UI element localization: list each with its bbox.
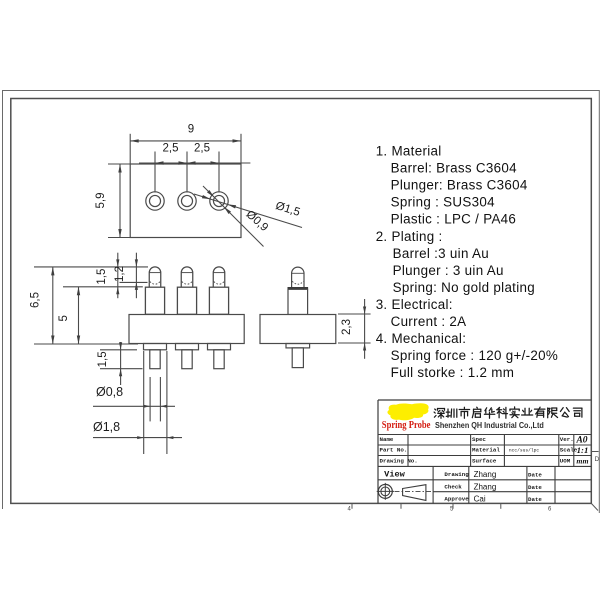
dimension 1,2 (full stroke) <box>135 253 137 299</box>
front view mounting bar <box>129 315 244 344</box>
extension line for 1,2 stroke <box>120 281 148 283</box>
svg-text:3. Electrical:: 3. Electrical: <box>376 297 453 312</box>
svg-text:2,3: 2,3 <box>341 319 353 335</box>
svg-text:1,2: 1,2 <box>114 266 126 282</box>
svg-text:1,5: 1,5 <box>96 269 108 285</box>
side view collar below bar <box>286 344 310 348</box>
dimension 1,5 (plunger travel) <box>117 253 119 299</box>
extension line tail end <box>100 368 143 370</box>
extension line at plunger tip level <box>34 266 148 268</box>
svg-text:Material: Material <box>472 447 500 454</box>
dia 0,8 extension lines (tail diameter) <box>149 377 151 421</box>
svg-text:Approve: Approve <box>444 496 469 503</box>
projection symbol centerline <box>395 490 433 492</box>
side view plunger with dome tip <box>292 267 304 288</box>
svg-text:Spring force : 120 g+/-20%: Spring force : 120 g+/-20% <box>391 348 558 363</box>
svg-text:2. Plating :: 2. Plating : <box>376 229 443 244</box>
svg-text:D: D <box>595 456 600 463</box>
svg-text:Zhang: Zhang <box>474 470 497 479</box>
svg-text:Zhang: Zhang <box>474 482 497 491</box>
extension line at bar bottom <box>34 343 138 345</box>
svg-text:Cai: Cai <box>474 494 486 503</box>
svg-text:2,5: 2,5 <box>163 143 179 155</box>
svg-text:Date: Date <box>528 472 542 479</box>
title block horizontal rules <box>378 434 591 436</box>
svg-text:Scale: Scale <box>560 447 578 454</box>
svg-text:Ø0,8: Ø0,8 <box>96 385 123 399</box>
top view hole 1 (double circle) <box>146 192 164 210</box>
front view pin 3 solder tail <box>214 350 224 369</box>
side view hidden spring seat (dotted arc) <box>292 281 303 284</box>
svg-text:Spec: Spec <box>472 436 486 443</box>
svg-text:mm: mm <box>576 456 588 465</box>
svg-text:A0: A0 <box>575 435 587 445</box>
extension line at barrel top level <box>63 286 143 288</box>
front view pin 2 solder tail <box>182 350 192 369</box>
title block vertical rules (upper rows) <box>407 435 409 467</box>
svg-text:6,5: 6,5 <box>30 292 42 308</box>
svg-text:5,9: 5,9 <box>95 193 107 209</box>
svg-text:9: 9 <box>188 124 194 136</box>
svg-text:Part No.: Part No. <box>380 447 408 454</box>
side view mounting bar <box>260 315 336 344</box>
svg-text:Plunger : 3 uin Au: Plunger : 3 uin Au <box>393 263 504 278</box>
svg-text:Surface: Surface <box>472 457 497 464</box>
svg-text:Spring : SUS304: Spring : SUS304 <box>391 195 495 210</box>
svg-text:Plastic : LPC / PA46: Plastic : LPC / PA46 <box>391 212 517 227</box>
svg-text:1,5: 1,5 <box>97 351 109 367</box>
pin 3 barrel <box>209 287 228 314</box>
svg-text:Spring: No gold plating: Spring: No gold plating <box>393 280 535 295</box>
svg-text:Shenzhen QH Industrial Co.,Ltd: Shenzhen QH Industrial Co.,Ltd <box>435 420 544 430</box>
company hanzi name (drawn strokes) <box>434 407 582 418</box>
title block outline <box>378 399 591 401</box>
front view pin 3 collar below bar <box>208 344 231 350</box>
pin 3 hidden spring seat (dotted arc) <box>214 281 225 284</box>
extension line collar bottom <box>100 349 137 351</box>
front view pin 2 collar below bar <box>176 344 199 350</box>
svg-text:1:1: 1:1 <box>577 445 589 455</box>
svg-text:Drawing: Drawing <box>444 471 469 478</box>
svg-text:2,5: 2,5 <box>194 143 210 155</box>
svg-text:Plunger: Brass C3604: Plunger: Brass C3604 <box>391 178 528 193</box>
third-angle projection symbol: target circle <box>378 484 392 498</box>
svg-text:View: View <box>384 470 405 480</box>
svg-text:Date: Date <box>528 496 542 503</box>
svg-text:4. Mechanical:: 4. Mechanical: <box>376 331 467 346</box>
drawing sheet outer border <box>3 90 600 92</box>
dimension 2,5 dimension line <box>139 162 250 164</box>
dimension 6,5 <box>52 267 54 344</box>
front view pin 1: plunger with dome tip <box>149 267 161 287</box>
logo yellow blob <box>387 403 428 420</box>
third-angle projection symbol: cone <box>403 485 426 501</box>
pin 2 hidden spring seat (dotted arc) <box>182 281 193 284</box>
drawing sheet inner border <box>11 99 592 504</box>
leader line dia 1,5 (hole outer) <box>194 194 302 228</box>
svg-text:Barrel :3 uin Au: Barrel :3 uin Au <box>393 246 489 261</box>
svg-text:UOM: UOM <box>560 457 571 464</box>
right border zone mark D <box>591 451 598 453</box>
dimension dia 1,8 <box>93 437 182 439</box>
dia 1,8 extension lines (collar diameter) <box>143 351 145 454</box>
leader line dia 0,9 (hole inner) <box>203 186 264 247</box>
pin 1 hidden spring seat (dotted arc) <box>150 281 161 284</box>
dimension 5 <box>78 287 80 344</box>
front view pin 3: plunger with dome tip <box>213 267 225 287</box>
svg-text:Ø1,8: Ø1,8 <box>93 420 120 434</box>
svg-text:Check: Check <box>444 483 462 490</box>
top view hole 2 (double circle) <box>178 192 196 210</box>
svg-text:Current : 2A: Current : 2A <box>391 314 467 329</box>
dimension 2,3 (bar thickness, side view) <box>338 313 371 315</box>
svg-text:ncc/sus/lpc: ncc/sus/lpc <box>509 447 540 453</box>
front view pin 1 solder tail <box>150 350 160 369</box>
svg-text:1. Material: 1. Material <box>376 144 442 159</box>
svg-text:Date: Date <box>528 484 542 491</box>
svg-text:Name: Name <box>380 436 394 443</box>
svg-text:Full storke : 1.2 mm: Full storke : 1.2 mm <box>391 365 515 380</box>
pin 1 barrel <box>145 287 164 314</box>
top view hole 3 (double circle) <box>210 192 228 210</box>
side view barrel <box>288 289 308 314</box>
front view pin 1 collar below bar <box>144 344 167 350</box>
side view barrel top flange (thick line) <box>288 287 309 290</box>
svg-text:Ver.: Ver. <box>560 436 574 443</box>
svg-text:5: 5 <box>58 315 70 321</box>
front view pin 2: plunger with dome tip <box>181 267 193 287</box>
dimension dia 0,8 <box>93 405 175 407</box>
top view: connector body outline <box>130 164 241 238</box>
svg-text:Spring Probe: Spring Probe <box>382 420 431 431</box>
side view solder tail <box>292 348 303 368</box>
dimension 2,5 hole pitch extension lines <box>154 152 156 193</box>
border zone ticks and numbers <box>351 503 353 508</box>
dimension 1,5 (tail length) <box>120 342 122 385</box>
corner diagonal mark <box>591 503 598 510</box>
svg-text:Drawing No.: Drawing No. <box>380 457 418 464</box>
svg-text:Barrel: Brass C3604: Barrel: Brass C3604 <box>391 161 518 176</box>
title block vertical rules (lower rows) <box>432 466 434 503</box>
dimension 9 (overall width) <box>129 134 131 164</box>
pin 2 barrel <box>177 287 196 314</box>
dimension 5,9 (body height) <box>108 163 130 165</box>
